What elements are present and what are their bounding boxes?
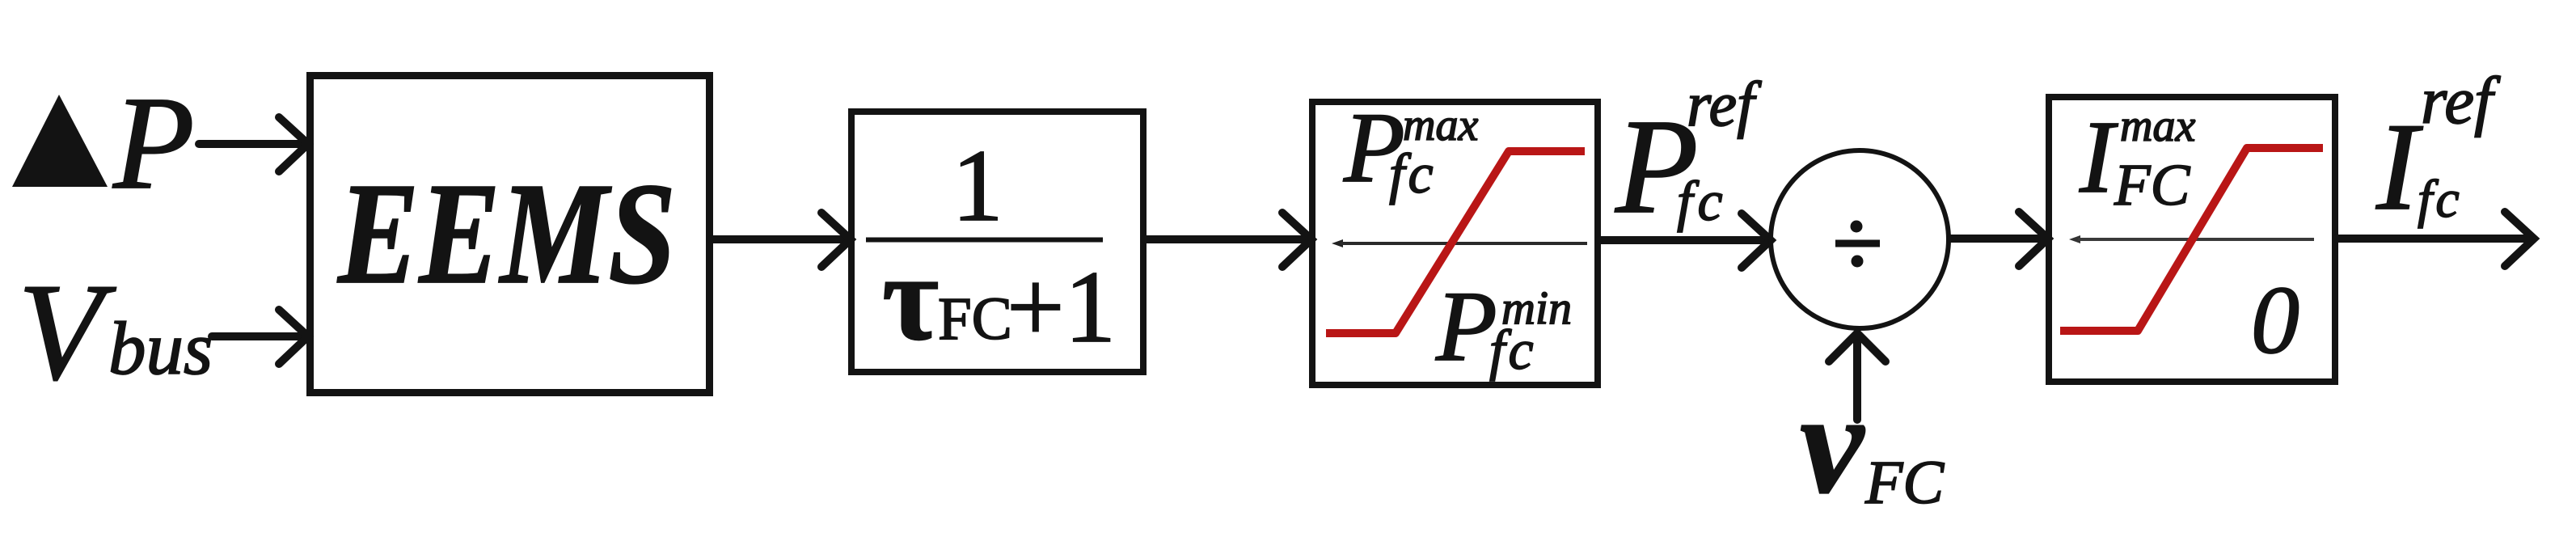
svg-text:I: I bbox=[2079, 99, 2118, 214]
svg-text:v: v bbox=[1800, 363, 1865, 523]
svg-text:max: max bbox=[2120, 101, 2195, 151]
node Pfc ref (label) bbox=[1615, 69, 1762, 242]
node Vbus (input label) bbox=[18, 256, 213, 409]
svg-text:fc: fc bbox=[1677, 171, 1728, 233]
svg-text:fc: fc bbox=[1389, 143, 1437, 205]
svg-text:+1: +1 bbox=[1007, 251, 1116, 364]
wire EEMS to transfer-function block bbox=[712, 213, 851, 267]
wire vFC input to divider bbox=[1829, 333, 1886, 420]
svg-text:FC: FC bbox=[2114, 152, 2191, 218]
svg-text:V: V bbox=[18, 256, 116, 409]
block EEMS bbox=[310, 76, 710, 393]
node vFC (input label) bbox=[1800, 363, 1945, 523]
wire saturation 1 to divider bbox=[1599, 213, 1771, 268]
svg-text:FC: FC bbox=[938, 285, 1012, 353]
wire transfer function to saturation block 1 bbox=[1145, 213, 1311, 267]
svg-text:P: P bbox=[1435, 271, 1497, 382]
svg-text:fc: fc bbox=[1489, 319, 1537, 382]
wire ΔP to EEMS bbox=[199, 117, 308, 171]
wire divider to saturation block 2 bbox=[1951, 212, 2048, 266]
block saturation 1 (P limits) bbox=[1312, 92, 1598, 385]
divider U1 (÷ circle) bbox=[1771, 150, 1949, 328]
svg-text:ref: ref bbox=[1687, 69, 1762, 139]
red saturation curve 2 bbox=[2060, 148, 2323, 331]
axis line of saturation 2 bbox=[2069, 235, 2080, 243]
node Ifc ref (output label) bbox=[2375, 63, 2501, 236]
wire Vbus to EEMS bbox=[212, 310, 308, 364]
svg-text:FC: FC bbox=[1864, 449, 1945, 517]
svg-text:I: I bbox=[2375, 97, 2423, 236]
wire saturation 2 to output Ifc ref bbox=[2337, 212, 2534, 266]
svg-text:ref: ref bbox=[2421, 63, 2501, 137]
svg-text:fc: fc bbox=[2418, 170, 2463, 229]
svg-text:P: P bbox=[112, 69, 195, 217]
svg-text:0: 0 bbox=[2251, 266, 2299, 374]
svg-text:1: 1 bbox=[952, 129, 1003, 243]
svg-text:bus: bus bbox=[108, 307, 213, 391]
block transfer function 1/(τFC+1) bbox=[851, 112, 1143, 372]
axis line of saturation 1 bbox=[1332, 239, 1343, 247]
block saturation 2 (I limits) bbox=[2049, 97, 2335, 382]
node ΔP (input label) bbox=[12, 69, 195, 217]
svg-text:τ: τ bbox=[882, 230, 939, 366]
svg-text:EEMS: EEMS bbox=[336, 153, 676, 314]
red saturation curve 1 bbox=[1326, 151, 1585, 333]
